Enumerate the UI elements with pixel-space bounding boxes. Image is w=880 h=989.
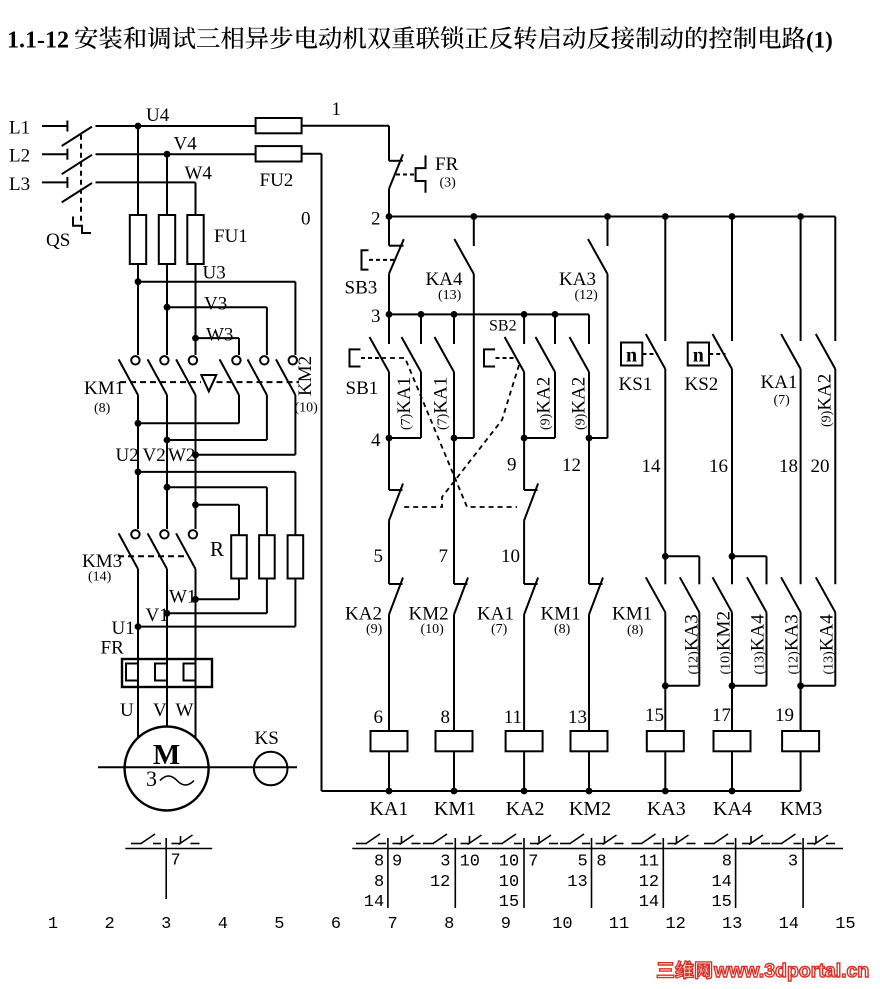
node V1: [164, 610, 171, 617]
svg-text:3: 3: [371, 306, 381, 327]
motor M circle: [125, 727, 209, 811]
contactor KM2 main contact 1: [232, 356, 240, 364]
contact KA1 self-hold b: [453, 314, 455, 344]
node 17 join: [729, 682, 736, 689]
crossref glyph set g: [772, 843, 783, 845]
svg-text:13: 13: [722, 915, 742, 934]
svg-text:FU1: FU1: [214, 226, 248, 247]
svg-text:W4: W4: [185, 163, 213, 184]
svg-text:4: 4: [218, 915, 228, 934]
svg-text:12: 12: [665, 915, 685, 934]
contact KA2 (9) NC: [389, 583, 403, 585]
rail2 junction e: [797, 213, 804, 220]
parallel contact KA4 (13) NO: [732, 555, 767, 557]
contact KA3 (12) NO colJ: [781, 577, 801, 612]
svg-text:9: 9: [507, 455, 517, 476]
wire U4 down to FU1: [137, 126, 139, 215]
svg-text:4: 4: [371, 430, 381, 451]
node 14 split: [662, 553, 669, 560]
crossref bar 7: [802, 838, 804, 908]
rail3 junction c: [521, 311, 528, 318]
motor shaft line: [98, 766, 297, 768]
svg-text:(10): (10): [295, 401, 319, 416]
wire col C run: [453, 438, 455, 584]
svg-text:V: V: [153, 700, 167, 721]
wire W3 to KM2 pole1: [196, 337, 240, 339]
wire V4 down to FU1: [166, 154, 168, 215]
node R tie 2: [164, 484, 171, 491]
motor tilde: [160, 776, 194, 785]
mech link SB2 to KA2nc (dashed): [404, 365, 519, 507]
wire KM3 pole3 below: [195, 569, 197, 659]
bottom rail 0: [322, 790, 801, 792]
svg-text:QS: QS: [46, 230, 70, 251]
contact KA4 (13) NO: [473, 217, 475, 247]
svg-text:10: 10: [499, 853, 519, 872]
svg-text:0: 0: [301, 209, 311, 230]
node 15 join: [662, 682, 669, 689]
node 9: [521, 435, 528, 442]
contactor KM1 main contact 2: [160, 356, 168, 364]
rail0 junction KA4: [729, 788, 736, 795]
svg-text:V4: V4: [174, 134, 198, 155]
rail0 junction KA1: [386, 788, 393, 795]
wire FU1 phase1 to KM1: [137, 264, 139, 355]
svg-text:7: 7: [171, 852, 181, 871]
svg-text:SB1: SB1: [346, 378, 379, 399]
svg-text:6: 6: [331, 915, 341, 934]
svg-text:5: 5: [577, 853, 587, 872]
contactor KM2 main contact 2: [260, 356, 268, 364]
speed switch KS2 (NO): [731, 217, 733, 342]
wire KM1 pole1 below: [137, 395, 139, 529]
svg-text:KA4: KA4: [426, 269, 463, 290]
switch QS pole 2: [66, 149, 68, 160]
wire node4 tie: [389, 437, 421, 439]
node 7 junction: [451, 435, 458, 442]
SB3 actuator: [362, 250, 369, 269]
FR heater element 3: [184, 664, 196, 681]
crossref main line: [352, 848, 843, 850]
mech link SB1 to KA1nc (dashed): [381, 358, 517, 507]
crossref FR NC glyph: [172, 843, 181, 845]
contact SB1-linked NC (col D): [523, 438, 525, 490]
wire L2 to FU2: [96, 153, 256, 155]
svg-text:15: 15: [835, 915, 855, 934]
svg-text:10: 10: [501, 546, 520, 567]
svg-text:14: 14: [779, 915, 799, 934]
node W1: [192, 596, 199, 603]
contactor KM1 main contact 1: [131, 356, 139, 364]
svg-text:3: 3: [161, 915, 171, 934]
svg-text:11: 11: [609, 915, 629, 934]
rail2 junction b: [604, 213, 611, 220]
KM1-KM2 linkage dashes: [120, 381, 201, 383]
wire KM2 pole2 below: [266, 395, 268, 440]
svg-text:U1: U1: [112, 618, 135, 639]
node 3: [386, 311, 393, 318]
svg-text:16: 16: [709, 456, 728, 477]
wire L3 input: [42, 181, 67, 183]
crossref glyph set f: [704, 843, 715, 845]
svg-text:KA1: KA1: [370, 798, 409, 820]
contactor KM1 main contact 3: [189, 356, 197, 364]
svg-text:KM2: KM2: [569, 798, 611, 820]
resistor R phase c: [288, 535, 304, 578]
crossref glyph set b: [423, 843, 434, 845]
svg-text:8: 8: [444, 915, 454, 934]
svg-text:1: 1: [332, 99, 342, 120]
svg-text:5: 5: [274, 915, 284, 934]
svg-text:11: 11: [504, 707, 522, 728]
svg-text:(7): (7): [774, 393, 791, 408]
contact KA1 self-hold a: [420, 314, 422, 344]
coil KA4: [714, 731, 751, 751]
svg-text:V2: V2: [143, 445, 166, 466]
crossref glyph set e: [632, 843, 643, 845]
svg-text:(8): (8): [627, 623, 644, 638]
wire V2 to resistor col2: [167, 486, 267, 488]
FR link dash: [396, 174, 416, 176]
switch QS pole 1: [66, 121, 68, 132]
svg-text:(8): (8): [554, 622, 571, 637]
node 2: [386, 213, 393, 220]
linkage triangle: [201, 375, 216, 391]
fuse FU1 phase 2: [159, 215, 175, 264]
contact KA2 self-hold a: [554, 314, 556, 344]
svg-text:10: 10: [499, 873, 519, 892]
svg-text:14: 14: [642, 456, 662, 477]
svg-text:2: 2: [104, 915, 114, 934]
svg-text:KM1: KM1: [612, 604, 652, 625]
svg-text:8: 8: [374, 873, 384, 892]
contact KA2 (9) NO col20: [834, 217, 836, 342]
contact KA4 (13) NO colK: [816, 577, 836, 612]
node U1: [135, 623, 142, 630]
svg-text:(14): (14): [88, 570, 112, 585]
svg-text:(1): (1): [806, 28, 833, 53]
svg-text:KS: KS: [255, 728, 279, 749]
svg-text:3: 3: [440, 853, 450, 872]
resistor R phase b: [259, 535, 275, 578]
svg-text:U3: U3: [203, 263, 226, 284]
crossref bar 5: [662, 838, 664, 908]
wire KM1 pole3 below: [195, 395, 197, 529]
coil KA2: [506, 731, 543, 751]
crossref glyph set a: [356, 843, 367, 845]
svg-text:3: 3: [788, 853, 798, 872]
svg-text:(7): (7): [491, 622, 508, 637]
wire FR phase1 through box: [137, 659, 139, 687]
SB1 actuator: [350, 349, 361, 366]
wire KM1 pole2 below: [166, 395, 168, 529]
wire KM2 pole1 below: [238, 395, 240, 423]
wire KM2 pole3 below: [294, 395, 296, 455]
wire U3 to KM2 pole3: [138, 281, 295, 283]
button SB3 (NC stop): [388, 217, 390, 246]
svg-text:20: 20: [811, 456, 830, 477]
svg-text:13: 13: [567, 873, 587, 892]
parallel contact KA3 (12) NO: [665, 555, 699, 557]
svg-text:W1: W1: [169, 587, 196, 608]
tie wire KM1p1-KM2p1: [138, 422, 239, 424]
SB2 actuator: [484, 349, 495, 366]
crossref FR NO glyph: [131, 843, 142, 845]
svg-text:(12): (12): [575, 288, 599, 303]
crossref FR bar: [165, 838, 167, 899]
rail2 junction c: [662, 213, 669, 220]
svg-text:V1: V1: [146, 605, 169, 626]
coil KA3: [647, 731, 684, 751]
svg-text:5: 5: [374, 546, 384, 567]
KS2 n-box: [688, 343, 709, 366]
wire L2 input: [42, 153, 67, 155]
crossref bar 6: [735, 838, 737, 908]
wire KA4 coil feed: [731, 686, 733, 731]
svg-text:3: 3: [146, 766, 157, 791]
resistor R phase a: [231, 535, 247, 578]
node tie U2: [135, 420, 142, 427]
fuse FU1 phase 3: [187, 215, 203, 264]
wire FR phase3 through box: [195, 659, 197, 687]
rail0 junction KM1: [451, 788, 458, 795]
svg-text:15: 15: [711, 893, 731, 912]
crossref bar 3: [523, 838, 525, 908]
contact KA1 (7) NC: [524, 583, 538, 585]
contactor KM3 main contact 1: [131, 530, 139, 538]
rail3 junction d: [552, 311, 559, 318]
svg-text:W2: W2: [168, 445, 195, 466]
wire KM3 pole1 below: [137, 569, 139, 659]
fuse FU1 phase 1: [130, 215, 146, 264]
svg-text:14: 14: [639, 893, 659, 912]
svg-text:(8): (8): [94, 401, 111, 416]
crossref glyph set d: [560, 843, 571, 845]
svg-text:1: 1: [48, 915, 58, 934]
coil KM2: [571, 731, 608, 751]
wire col F run: [588, 438, 590, 584]
contact KA2 self-hold b: [588, 314, 590, 344]
svg-text:17: 17: [712, 705, 731, 726]
node U4: [135, 123, 142, 130]
svg-text:8: 8: [441, 707, 451, 728]
wire L1 input: [42, 125, 67, 127]
svg-text:FR: FR: [101, 638, 125, 659]
svg-text:9: 9: [392, 853, 402, 872]
coil KA1: [371, 731, 408, 751]
button SB1 (NO start fwd): [388, 314, 390, 344]
svg-text:www.3dportal.cn: www.3dportal.cn: [713, 960, 869, 982]
contact KM2 (10) NC: [454, 583, 468, 585]
wire U2 to resistor col3: [138, 471, 295, 473]
svg-text:14: 14: [711, 873, 731, 892]
svg-text:18: 18: [779, 456, 798, 477]
svg-text:L1: L1: [9, 118, 30, 139]
svg-text:8: 8: [596, 853, 606, 872]
wire U to motor: [137, 687, 139, 737]
crossref bar 4: [591, 838, 593, 908]
rail3 junction a: [418, 311, 425, 318]
node 16 split: [729, 553, 736, 560]
node R tie 3: [192, 501, 199, 508]
wire node9 tie: [524, 437, 555, 439]
svg-text:10: 10: [460, 853, 480, 872]
svg-text:9: 9: [501, 915, 511, 934]
wire KM3 coil feed: [800, 686, 802, 731]
speed switch KS1 (NO): [664, 217, 666, 342]
FR heater element 1: [126, 664, 138, 681]
wire FU1 phase3 to KM1: [195, 264, 197, 355]
svg-text:KM1: KM1: [84, 378, 124, 399]
svg-text:M: M: [153, 739, 180, 771]
svg-text:SB2: SB2: [489, 318, 517, 335]
svg-text:11: 11: [639, 853, 659, 872]
crossref bar 2: [454, 838, 456, 908]
svg-text:KA3: KA3: [559, 269, 596, 290]
tie wire KM1p2-KM2p2: [167, 439, 267, 441]
crossref FR line: [125, 848, 212, 850]
tie wire KM1p3-KM2p3: [196, 454, 296, 456]
svg-text:FR: FR: [435, 154, 459, 175]
wire FR phase2 through box: [166, 659, 168, 687]
svg-text:6: 6: [374, 707, 384, 728]
rail0 junction KA2: [521, 788, 528, 795]
FR heater element 2: [155, 664, 167, 681]
wire KA3 coil feed: [664, 686, 666, 731]
wire V3 to KM2 pole2: [167, 306, 267, 308]
svg-text:KM1: KM1: [434, 798, 476, 820]
node V3: [164, 304, 171, 311]
svg-text:W: W: [176, 700, 194, 721]
rail0 junction KA3: [662, 788, 669, 795]
thermal relay FR heater box: [122, 659, 212, 687]
svg-text:KS2: KS2: [685, 374, 719, 395]
svg-text:R: R: [210, 537, 224, 561]
switch QS pole 3: [66, 177, 68, 188]
contactor KM3 main contact 2: [160, 530, 168, 538]
crossref bar 1: [387, 838, 389, 908]
svg-text:L2: L2: [9, 146, 30, 167]
contact KM2 (10) NO: [731, 556, 733, 584]
svg-text:n: n: [626, 345, 637, 367]
KS1 n-box: [621, 343, 642, 366]
node V4: [164, 151, 171, 158]
wire resistor2 to V1: [266, 579, 268, 614]
svg-text:2: 2: [371, 209, 381, 230]
svg-text:(9): (9): [366, 622, 383, 637]
svg-text:19: 19: [775, 705, 794, 726]
KM3 linkage dashes: [118, 555, 186, 557]
svg-text:10: 10: [552, 915, 572, 934]
node R tie 1: [135, 469, 142, 476]
wire resistor3 to U1: [294, 579, 296, 627]
svg-text:(3): (3): [440, 176, 457, 191]
switch QS linkage: [80, 135, 82, 225]
wire 1 from FU2 to FR: [302, 125, 389, 127]
thermal contact FR (NC): [389, 160, 403, 162]
crossref glyph set c: [492, 843, 503, 845]
node tie W2: [192, 451, 199, 458]
svg-text:7: 7: [528, 853, 538, 872]
rail0 junction KM2: [586, 788, 593, 795]
svg-text:12: 12: [562, 455, 581, 476]
svg-text:KA2: KA2: [506, 798, 545, 820]
svg-text:V3: V3: [204, 294, 227, 315]
contact KA3 (12) NO: [607, 217, 609, 247]
FR thermal symbol: [416, 155, 426, 192]
contact KA1 (7) NO col18: [800, 217, 802, 342]
node W3: [192, 335, 199, 342]
wire W to motor: [195, 687, 197, 738]
coil KM1: [436, 731, 473, 751]
node 12: [586, 435, 593, 442]
svg-text:U4: U4: [146, 105, 170, 126]
svg-text:13: 13: [568, 707, 587, 728]
rail3 junction b: [451, 311, 458, 318]
svg-text:(13): (13): [438, 288, 462, 303]
wire KM3 pole2 below: [166, 569, 168, 659]
node 19 join: [797, 682, 804, 689]
svg-text:W3: W3: [206, 325, 233, 346]
svg-text:(10): (10): [421, 622, 445, 637]
svg-text:KA1: KA1: [761, 372, 798, 393]
svg-text:SB3: SB3: [345, 278, 378, 299]
contact KM1 (8) NC: [589, 583, 603, 585]
contactor KM2 main contact 3: [289, 356, 297, 364]
node tie V2: [164, 437, 171, 444]
contact KM1 (8) NO: [664, 556, 666, 584]
wire W2 to resistor col1: [196, 504, 240, 506]
svg-text:n: n: [693, 345, 704, 367]
rail node 3: [389, 313, 589, 315]
speed switch KS circle: [254, 752, 288, 786]
svg-text:KM2: KM2: [295, 356, 316, 396]
node 4: [386, 435, 393, 442]
wire W4 down to FU1: [195, 182, 197, 215]
button SB2 (NO start rev): [523, 314, 525, 344]
coil KM3: [782, 731, 819, 751]
svg-text:KA3: KA3: [647, 798, 686, 820]
svg-text:12: 12: [639, 873, 659, 892]
wire L3 to FU1: [96, 181, 196, 183]
rail node 2: [389, 216, 835, 218]
wire resistor1 to W1: [238, 579, 240, 600]
svg-text:15: 15: [499, 893, 519, 912]
svg-text:8: 8: [722, 853, 732, 872]
fuse FU2 (upper): [256, 118, 302, 133]
svg-text:U2: U2: [116, 445, 139, 466]
node U3: [135, 278, 142, 285]
svg-text:KA4: KA4: [713, 798, 752, 820]
svg-text:7: 7: [387, 915, 397, 934]
svg-text:15: 15: [645, 705, 664, 726]
rail2 junction d: [729, 213, 736, 220]
fuse FU2 (lower): [256, 146, 302, 161]
svg-text:12: 12: [430, 873, 450, 892]
rail2 junction a: [470, 213, 477, 220]
svg-text:14: 14: [364, 893, 384, 912]
svg-text:1.1-12: 1.1-12: [7, 28, 69, 54]
svg-text:FU2: FU2: [260, 170, 294, 191]
svg-text:U: U: [120, 700, 134, 721]
contact SB2-linked NC (col A): [388, 438, 390, 490]
wire FU1 phase2 to KM1: [166, 264, 168, 355]
svg-text:L3: L3: [9, 174, 30, 195]
watermark: [657, 963, 674, 978]
svg-text:8: 8: [374, 853, 384, 872]
wire 0 from FU2 down: [302, 153, 322, 155]
wire L1 to FU2: [96, 125, 256, 127]
